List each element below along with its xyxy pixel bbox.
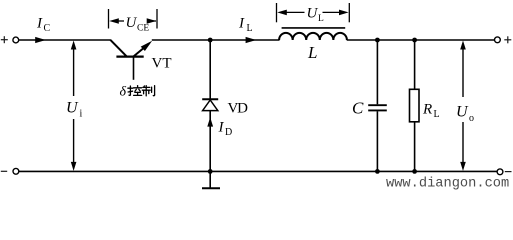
voltage arrow U_o: [460, 41, 466, 171]
svg-text:L: L: [434, 109, 440, 120]
terminal + (input positive): [1, 36, 8, 43]
wire: input terminal to VT collector: [19, 39, 111, 41]
input terminal bottom-left: [13, 168, 19, 174]
current arrow I_L: [246, 37, 257, 43]
svg-text:D: D: [225, 127, 232, 138]
output terminal top-right: [495, 37, 501, 43]
output terminal bottom-right: [497, 169, 503, 175]
junction dot: capacitor top: [375, 38, 380, 43]
svg-text:U: U: [66, 100, 79, 117]
svg-text:www.diangon.com: www.diangon.com: [386, 177, 509, 192]
bottom wire: [19, 170, 497, 172]
junction dot: diode bottom: [208, 169, 213, 174]
terminal + (output positive): [504, 36, 511, 43]
svg-text:VD: VD: [228, 101, 249, 117]
svg-text:U: U: [126, 15, 138, 31]
svg-text:C: C: [352, 99, 364, 118]
svg-text:I: I: [36, 16, 43, 32]
ground stub: [202, 171, 220, 188]
diode VD: [202, 40, 218, 171]
junction dot: diode top: [208, 38, 213, 43]
wire: VT emitter to inductor: [152, 39, 280, 41]
voltage arrow U_i: [71, 41, 77, 171]
svg-text:U: U: [456, 104, 469, 121]
terminal − (output negative): [505, 171, 512, 173]
svg-text:C: C: [44, 23, 51, 34]
svg-text:δ: δ: [120, 85, 127, 100]
svg-text:L: L: [318, 14, 324, 24]
junction dot: resistor bottom: [412, 169, 417, 174]
svg-text:i: i: [80, 109, 83, 120]
junction dot: capacitor bottom: [375, 169, 380, 174]
resistor R_L: [410, 40, 420, 171]
capacitor C: [368, 40, 387, 171]
svg-text:CE: CE: [137, 24, 149, 34]
current arrow I_C: [35, 37, 46, 43]
input terminal top-left: [13, 37, 19, 43]
inductor L: [279, 28, 347, 40]
svg-text:L: L: [247, 23, 253, 34]
svg-text:I: I: [218, 120, 225, 136]
svg-text:o: o: [469, 113, 474, 124]
svg-text:U: U: [307, 6, 319, 22]
wire: inductor to output terminal: [347, 39, 495, 41]
current arrow I_D: [207, 117, 213, 126]
svg-text:I: I: [238, 16, 245, 32]
dimension U_CE: [109, 9, 158, 29]
svg-text:L: L: [307, 43, 317, 62]
label δ控制: [120, 85, 155, 100]
junction dot: resistor top: [412, 38, 417, 43]
svg-text:VT: VT: [152, 55, 172, 71]
dimension U_L: [277, 3, 350, 22]
transistor VT: [110, 40, 152, 80]
svg-text:R: R: [422, 102, 432, 118]
terminal − (input negative): [1, 170, 7, 172]
